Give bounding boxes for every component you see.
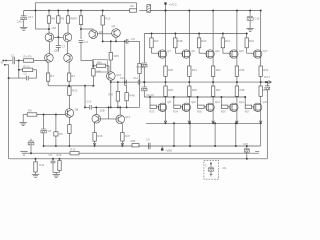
resistor R22 — [245, 33, 248, 48]
label R1 — [24, 55, 33, 59]
wire shunt bottom — [8, 77, 37, 79]
resistor R39 — [259, 86, 262, 96]
label Q4 — [112, 24, 116, 28]
svg-text:R23: R23 — [150, 110, 155, 114]
resistor R24 — [174, 105, 181, 108]
svg-text:D5: D5 — [59, 132, 63, 136]
label R39 — [263, 88, 268, 92]
wire R1 to Q5 base — [34, 60, 47, 62]
svg-text:R32: R32 — [216, 68, 221, 72]
wire output bus — [111, 81, 125, 83]
svg-text:R3: R3 — [50, 74, 54, 78]
mosfet Q15 — [230, 50, 238, 58]
capacitor C6 — [51, 158, 56, 173]
svg-text:Q8: Q8 — [167, 100, 171, 104]
wire lower gate stub 2 — [173, 96, 175, 105]
label C7 — [62, 45, 66, 49]
wire RC join — [53, 173, 60, 175]
svg-text:R27: R27 — [245, 110, 250, 114]
wire C16 gnd — [249, 21, 251, 29]
capacitor C4 — [79, 41, 94, 61]
resistor R16 — [150, 33, 153, 48]
wire R7 down — [80, 25, 82, 40]
wire gate lead 2 — [175, 48, 182, 53]
resistor R25 — [198, 105, 205, 108]
label R4 — [71, 74, 75, 78]
label C16 — [254, 16, 260, 20]
fuse F1 — [130, 9, 137, 12]
svg-text:Q9: Q9 — [191, 49, 195, 53]
wire lower drain 1 — [164, 110, 167, 124]
svg-text:C2: C2 — [24, 73, 28, 76]
svg-text:Q17: Q17 — [263, 49, 269, 53]
wire Q3-Q4 link — [98, 33, 112, 35]
wire R46 down — [94, 141, 96, 147]
boxed resistor R40 — [93, 60, 109, 72]
arrow R47 — [121, 143, 124, 145]
label Q10 — [191, 100, 197, 104]
label Q15 — [239, 49, 245, 53]
resistor R47 — [121, 133, 124, 142]
wire lower source 2 — [188, 82, 190, 86]
label -VEE — [165, 149, 172, 153]
wire upper source 2 — [188, 57, 190, 66]
svg-text:R40: R40 — [97, 61, 102, 64]
resistor R48 — [125, 93, 128, 101]
terminal input — [2, 60, 12, 66]
label C4b — [146, 138, 150, 142]
label +VCC — [169, 2, 178, 6]
label R24 — [173, 110, 178, 114]
svg-text:OUT: OUT — [264, 75, 271, 79]
resistor R38 — [235, 86, 238, 96]
label zobel note — [222, 167, 227, 170]
ground line2 end — [20, 151, 27, 155]
transistor Q10 bias — [107, 72, 116, 81]
mosfet Q11 — [206, 50, 214, 58]
label C9 — [131, 37, 135, 41]
wire Q13 collector — [119, 106, 121, 115]
wire bus mid — [126, 81, 138, 83]
svg-text:Q5: Q5 — [54, 49, 58, 53]
resistor R12 — [101, 10, 104, 26]
resistor R20 — [197, 33, 200, 48]
wire lower gate stub 3 — [197, 96, 199, 105]
label R34 — [263, 68, 268, 72]
svg-text:Q4: Q4 — [112, 24, 116, 28]
resistor R5 — [57, 10, 60, 38]
wire upper source 1 — [165, 57, 167, 66]
wire R11b down — [68, 134, 70, 148]
wire gate bus lower — [144, 96, 245, 98]
capacitor C12 — [90, 105, 92, 109]
label R12 — [105, 17, 111, 21]
resistor R11b — [68, 125, 71, 134]
wire upper source 3 — [212, 57, 214, 66]
svg-text:2SA: 2SA — [52, 27, 57, 30]
svg-text:C15: C15 — [243, 142, 248, 146]
label R25 — [197, 110, 202, 114]
svg-text:R11: R11 — [39, 163, 44, 167]
svg-text:C17: C17 — [28, 15, 34, 19]
wire driver rail — [85, 106, 140, 108]
label R13 — [71, 148, 76, 152]
label R47 — [125, 134, 130, 138]
label R22 — [249, 39, 254, 43]
label C13 — [120, 76, 125, 80]
svg-text:8A: 8A — [131, 4, 135, 8]
svg-text:C13: C13 — [120, 76, 125, 80]
label Q11 — [215, 49, 220, 53]
wire R9 gnd — [23, 115, 27, 123]
wire lower src lead 5 — [260, 96, 262, 104]
svg-text:Q11: Q11 — [215, 49, 220, 53]
resistor R37 — [211, 86, 214, 96]
transistor Q3 — [89, 30, 98, 39]
svg-text:10n: 10n — [222, 167, 227, 170]
svg-text:R12: R12 — [57, 153, 62, 157]
arrow R46 — [93, 143, 96, 145]
svg-text:C4: C4 — [84, 40, 88, 44]
capacitor C16 — [247, 16, 253, 20]
wire to out bus 5 — [260, 76, 262, 83]
svg-text:R38: R38 — [240, 88, 245, 92]
label 2SA — [52, 27, 57, 30]
svg-text:C6: C6 — [49, 153, 53, 157]
label C17 value — [17, 21, 23, 24]
wire lower src lead 1 — [165, 96, 167, 104]
label Q3 — [99, 30, 103, 34]
wire to out bus 3 — [212, 76, 214, 83]
connector J1 hatched — [139, 5, 150, 13]
wire R43 down — [117, 101, 119, 108]
wire to out bus 1 — [165, 76, 167, 83]
wire VAS to line — [125, 82, 127, 85]
transistor Q12 — [92, 115, 101, 124]
wire R45 down — [110, 60, 112, 72]
svg-text:C12: C12 — [86, 100, 91, 104]
svg-text:C7: C7 — [62, 45, 66, 49]
label CZ — [205, 166, 207, 168]
wire gate lead 5 — [247, 48, 254, 53]
label Q17 — [263, 49, 269, 53]
transistor Q6 — [64, 54, 73, 63]
resistor R33 — [235, 66, 238, 76]
wire tail down — [84, 86, 86, 109]
wire upper drain 1 — [165, 10, 167, 52]
label C2 — [24, 73, 28, 76]
resistor R6 — [47, 10, 50, 34]
resistor R18 — [174, 33, 177, 48]
wire input gnd column — [8, 65, 10, 159]
wire lower src lead 4 — [236, 96, 238, 104]
wire gate lead 1 — [152, 48, 159, 53]
transistor Q1 — [45, 33, 54, 42]
svg-text:R6: R6 — [51, 17, 55, 21]
label Q5 — [54, 49, 58, 53]
transistor Q8 — [65, 109, 74, 118]
svg-text:C3: C3 — [146, 138, 150, 142]
capacitor C14 — [138, 80, 140, 85]
svg-text:C9: C9 — [131, 37, 135, 41]
ground RC — [53, 175, 60, 178]
label R5 — [61, 17, 65, 21]
terminal +VCC — [165, 3, 167, 12]
svg-text:Q12: Q12 — [215, 100, 221, 104]
label R10 — [72, 89, 77, 93]
wire Q12 collector — [95, 106, 97, 114]
svg-text:R7: R7 — [74, 17, 78, 21]
svg-text:R26: R26 — [221, 110, 226, 114]
resistor RL1 — [34, 158, 37, 172]
wire Q1 emitter — [48, 42, 50, 54]
wire gate lead 3 — [199, 48, 206, 53]
svg-text:R21: R21 — [225, 39, 230, 43]
svg-text:Q15: Q15 — [239, 49, 245, 53]
wire vee rail — [44, 145, 261, 147]
wire mid column — [92, 61, 94, 69]
wire R41 down — [92, 76, 94, 86]
wire gate lead 4 — [223, 48, 230, 53]
label fuse 8A — [131, 4, 135, 8]
svg-text:+VCC: +VCC — [169, 2, 178, 6]
svg-text:R10: R10 — [72, 89, 77, 93]
wire cell5 corner — [260, 123, 262, 146]
wire lower gate lead 2 — [180, 106, 182, 108]
transistor Q5 — [45, 54, 54, 63]
wire Q6 emitter — [69, 61, 70, 73]
label Q8 — [75, 108, 79, 112]
label Q8 — [167, 100, 171, 104]
wire bias column bot — [143, 91, 145, 97]
capacitor C7 — [56, 45, 61, 51]
wire lower gate stub 4 — [220, 96, 222, 105]
wire drain-vee links — [173, 122, 237, 147]
label C12 — [86, 100, 91, 104]
label R27 — [245, 110, 250, 114]
svg-text:Q8: Q8 — [75, 108, 79, 112]
wire Q4 down — [115, 37, 117, 42]
label R41 — [97, 70, 102, 74]
wire lower source 1 — [165, 82, 167, 86]
mosfet Q8 — [158, 103, 166, 111]
svg-text:C10(2): C10(2) — [136, 65, 144, 69]
capacitor C9 — [126, 39, 139, 63]
label R43 — [108, 93, 113, 97]
capacitor C1 — [13, 57, 24, 64]
svg-text:R43: R43 — [108, 93, 113, 97]
svg-text:R5: R5 — [61, 17, 65, 21]
svg-text:Q13: Q13 — [125, 115, 130, 119]
mosfet Q10 — [182, 103, 190, 111]
capacitor C11 — [142, 87, 147, 91]
wire lower drain 3 — [212, 110, 215, 124]
label C4 — [84, 40, 88, 44]
svg-text:R18: R18 — [178, 39, 183, 43]
label R48 — [129, 94, 135, 98]
diode D5 — [54, 115, 58, 148]
svg-text:R30: R30 — [168, 68, 173, 72]
label Q16 — [263, 100, 269, 104]
label C1 — [11, 54, 15, 58]
label R16 — [154, 39, 159, 43]
svg-text:R20: R20 — [201, 39, 206, 43]
wire gnd line2 — [24, 152, 259, 154]
resistor R31 — [188, 66, 191, 76]
label pair — [100, 109, 105, 113]
mosfet Q12 — [206, 103, 214, 111]
capacitor C2 — [27, 76, 29, 81]
mosfet Q17 — [254, 50, 262, 58]
label C11 — [146, 94, 154, 97]
svg-text:R2 1k: R2 1k — [23, 65, 30, 68]
svg-text:R4: R4 — [71, 74, 75, 78]
svg-text:R34: R34 — [263, 68, 268, 72]
wire to out bus 2 — [188, 76, 190, 83]
resistor R9 — [27, 113, 37, 116]
capacitor C15 — [244, 145, 249, 160]
label R18 — [178, 39, 183, 43]
resistor R12b — [58, 158, 61, 173]
resistor R35 — [164, 86, 167, 96]
wire lower source 5 — [260, 82, 262, 86]
resistor R2 — [18, 68, 33, 71]
label C10 — [136, 65, 144, 69]
label R21 — [225, 39, 230, 43]
svg-text:R1 47k: R1 47k — [24, 55, 33, 59]
svg-text:R45: R45 — [114, 54, 120, 58]
resistor R3 — [46, 73, 49, 81]
svg-text:R31: R31 — [192, 68, 197, 72]
label R23 — [150, 110, 155, 114]
wire C17 drop — [23, 11, 25, 16]
svg-text:R33: R33 — [240, 68, 245, 72]
resistor R30 — [164, 66, 167, 76]
svg-text:R41: R41 — [97, 70, 102, 74]
terminal OUT — [265, 81, 272, 84]
label R35 — [168, 88, 173, 92]
polarity mark C15 — [255, 151, 259, 153]
ground C17 — [20, 27, 27, 30]
resistor R43 — [116, 81, 119, 101]
svg-text:Q14: Q14 — [239, 100, 245, 104]
resistor R53 — [132, 144, 139, 147]
wire lower source 3 — [212, 82, 214, 86]
wire lower gate lead 5 — [252, 106, 254, 108]
resistor R41 — [92, 68, 95, 76]
wire upper source 5 — [260, 57, 262, 66]
label R14 — [142, 65, 148, 69]
wire upper drain 5 — [260, 10, 262, 52]
label D5 — [59, 132, 63, 136]
svg-text:R48: R48 — [129, 94, 135, 98]
resistor R46 — [93, 133, 96, 142]
svg-text:2SB: 2SB — [100, 109, 105, 113]
wire Q13 emitter — [121, 123, 123, 133]
label R32 — [216, 68, 221, 72]
wire R10 top — [68, 86, 70, 87]
resistor R8 — [66, 10, 69, 34]
wire +VCC feed line — [35, 3, 136, 9]
label OUT — [264, 75, 271, 79]
capacitor C17 — [21, 16, 27, 20]
svg-text:C1: C1 — [11, 54, 15, 58]
resistor R26 — [221, 105, 228, 108]
terminal -VEE — [161, 146, 163, 150]
label R38 — [240, 88, 245, 92]
label R26 — [221, 110, 226, 114]
wire bias column mid — [143, 67, 145, 87]
svg-text:C: C — [205, 166, 207, 168]
wire lower src lead 3 — [212, 96, 214, 104]
mosfet Q16 — [254, 103, 262, 111]
wire vcc branch — [34, 3, 49, 29]
wire lower gate stub 1 — [149, 96, 151, 105]
capacitor C5 — [41, 115, 46, 148]
svg-text:R35: R35 — [168, 88, 173, 92]
wire bus right — [140, 81, 271, 83]
label R37 — [216, 88, 221, 92]
label Q14 — [239, 100, 245, 104]
svg-text:R9: R9 — [28, 109, 32, 113]
wire to out bus 4 — [236, 76, 238, 83]
wire lower source 4 — [236, 82, 238, 86]
wire lower gate lead 3 — [204, 106, 206, 108]
svg-text:Q10: Q10 — [191, 100, 197, 104]
wire base node down — [57, 37, 59, 45]
wire R14 down — [139, 74, 141, 108]
wire R48 wires — [126, 86, 128, 109]
resistor R13 — [70, 152, 79, 155]
wire RL1 gnd — [35, 172, 37, 174]
svg-text:R46: R46 — [97, 134, 102, 138]
wire Q12 emitter — [94, 122, 96, 132]
label R9 — [28, 109, 32, 113]
svg-text:R24: R24 — [173, 110, 178, 114]
wire emitter join — [48, 81, 94, 87]
ground RL1 — [32, 174, 39, 177]
wire gnd line3 — [9, 158, 268, 160]
transistor Q4 — [112, 29, 121, 38]
capacitor C4b — [148, 143, 150, 149]
label R30 — [168, 68, 173, 72]
label R36 — [192, 88, 197, 92]
wire upper drain 2 — [188, 10, 190, 52]
label Q9 — [191, 49, 195, 53]
svg-text:-VEE: -VEE — [165, 149, 172, 153]
label C15 — [243, 142, 248, 146]
wire R2 right — [33, 70, 37, 78]
resistor R36 — [188, 86, 191, 96]
wire gate bus upper — [144, 33, 246, 35]
label R8 — [70, 17, 74, 21]
wire Q8 base — [65, 114, 68, 115]
svg-text:R36: R36 — [192, 88, 197, 92]
label R33 — [240, 68, 245, 72]
capacitor C18 — [265, 86, 270, 90]
mosfet Q14 — [230, 103, 238, 111]
resistor R27 — [245, 105, 252, 108]
ground C16 — [246, 28, 253, 31]
wire Q3 collector — [81, 28, 93, 31]
svg-text:C5: C5 — [48, 129, 52, 133]
capacitor C6e — [28, 139, 34, 154]
label C5 — [48, 129, 52, 133]
label C17 — [28, 15, 34, 19]
wire Q2 emitter — [67, 42, 69, 54]
svg-text:R37: R37 — [216, 88, 221, 92]
label R6 — [51, 17, 55, 21]
